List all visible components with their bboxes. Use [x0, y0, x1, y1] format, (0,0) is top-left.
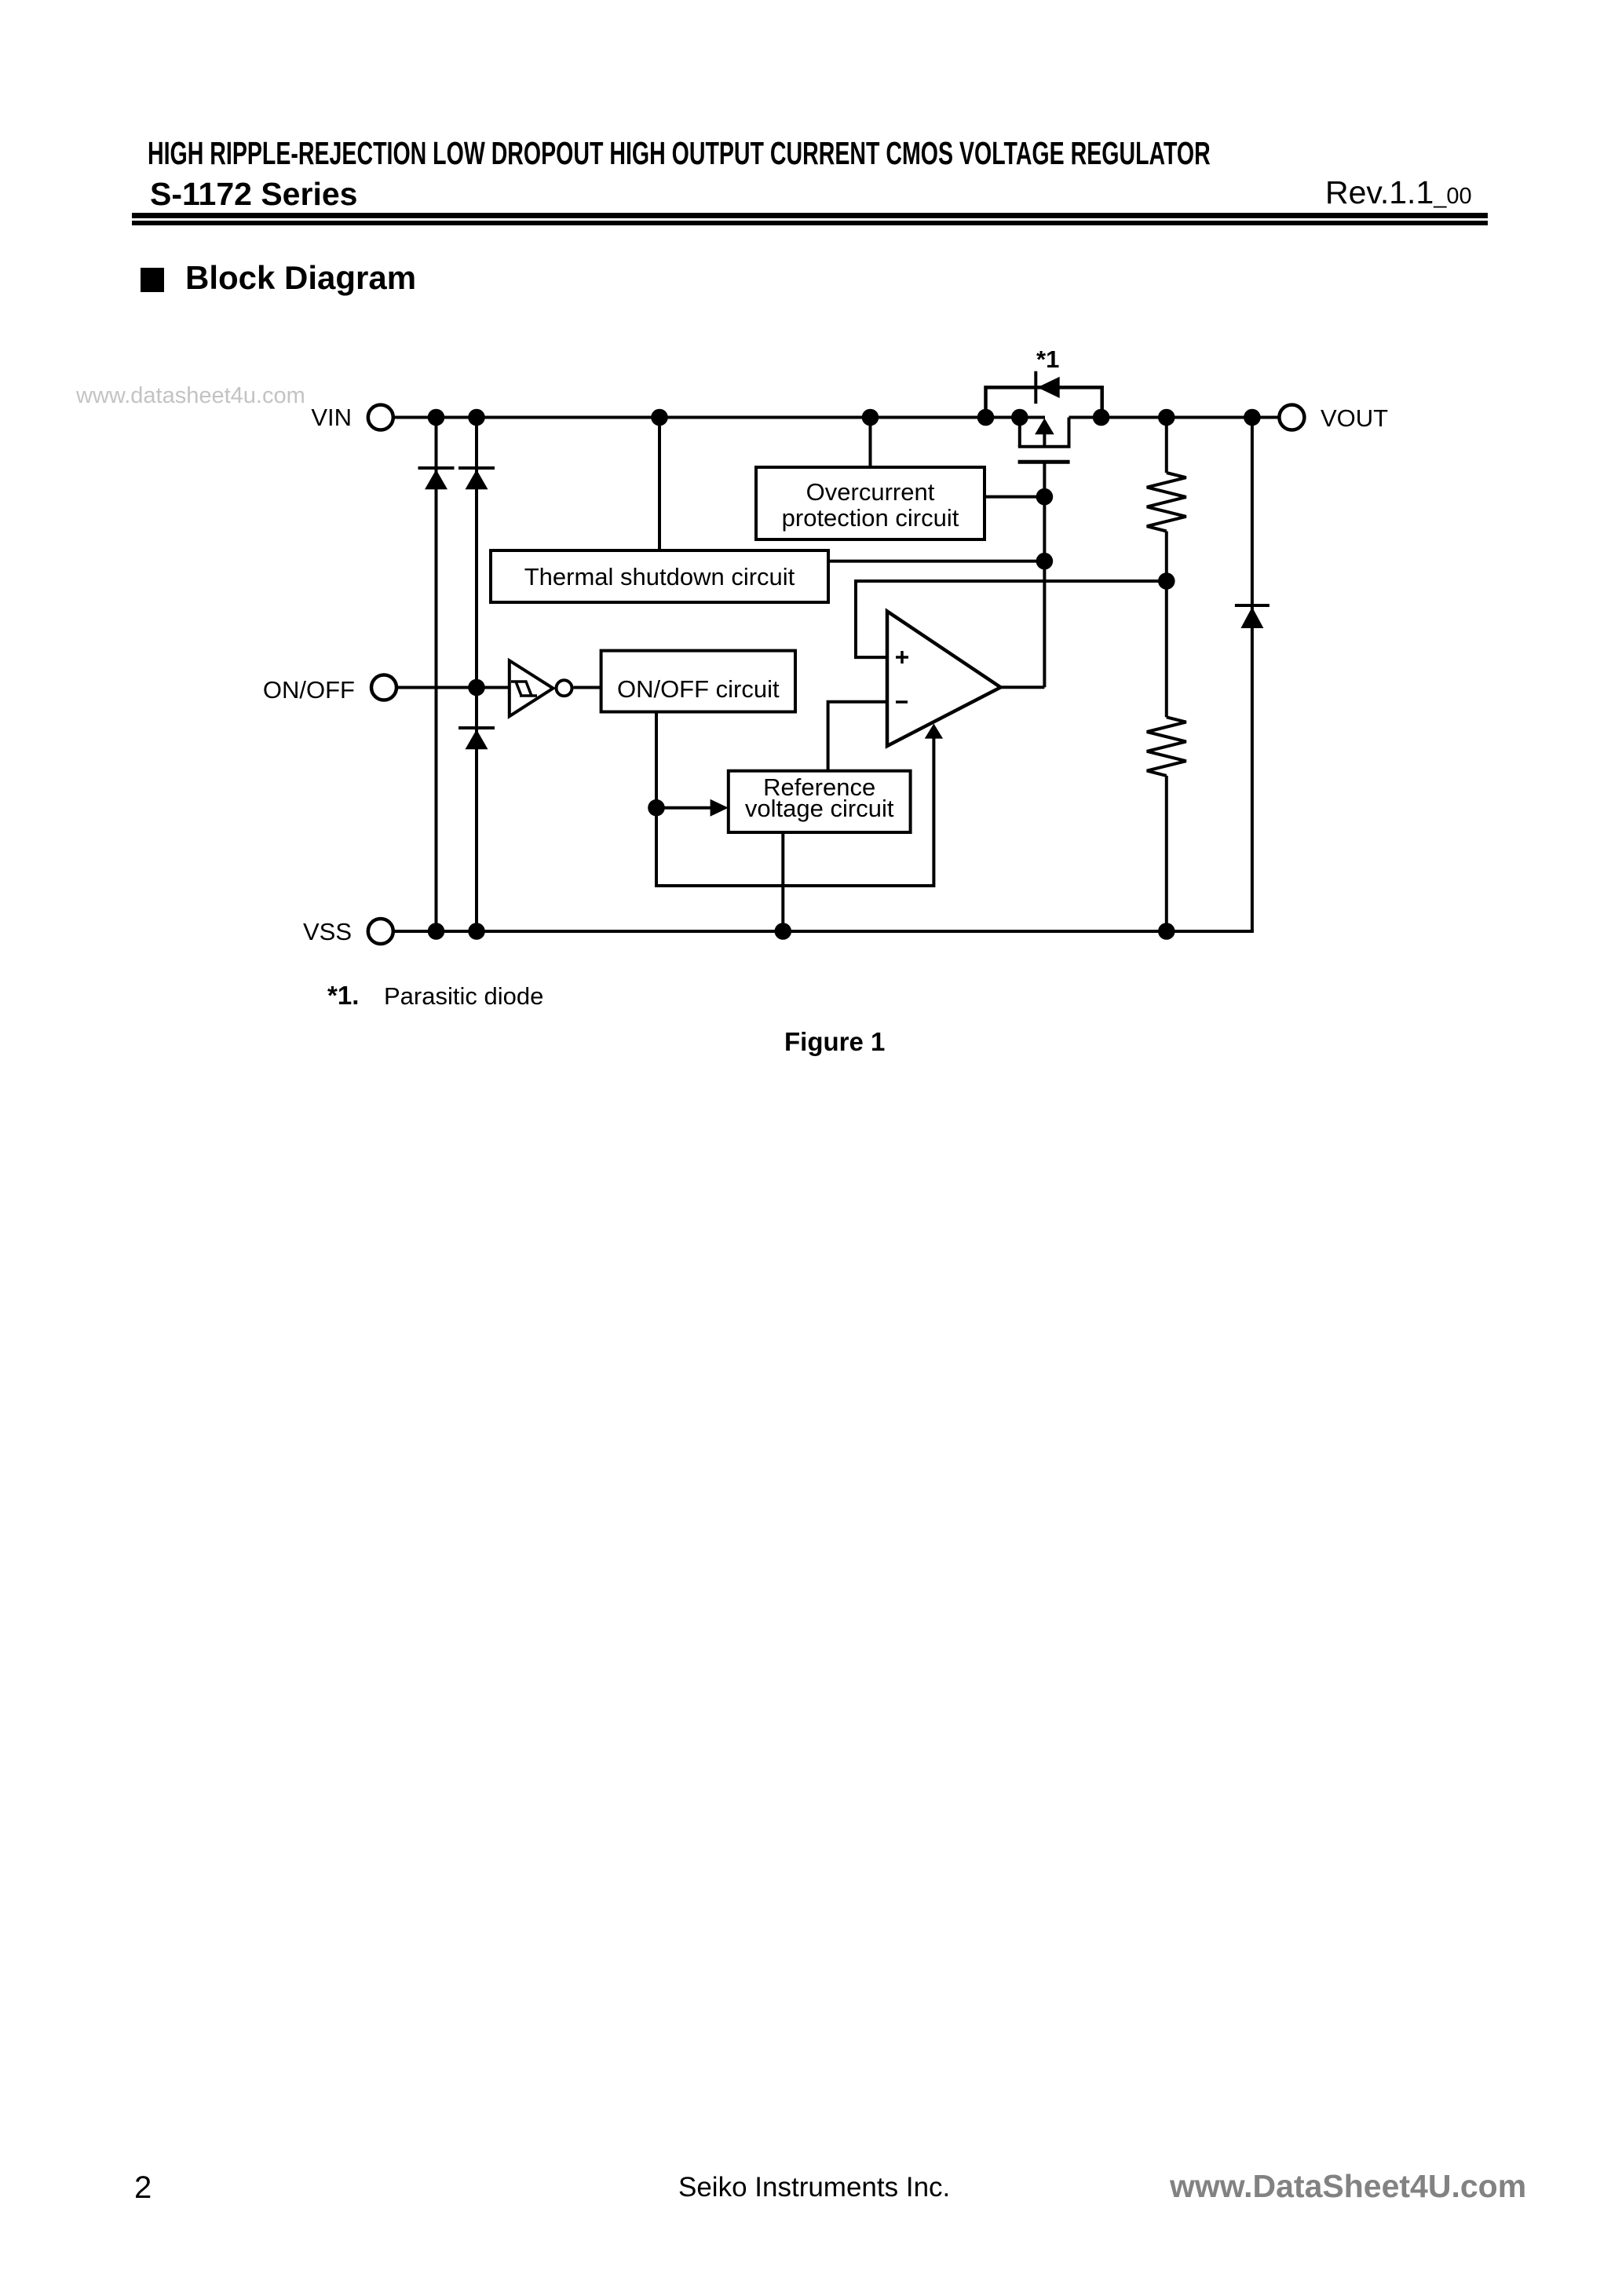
terminal VSS	[303, 918, 393, 945]
wire VIN rail right	[1069, 416, 1280, 419]
header title line 1	[148, 137, 1211, 170]
node gate dot 1	[1036, 488, 1054, 506]
box reference voltage circuit	[729, 771, 911, 832]
node junction dots on VIN rail	[428, 409, 1261, 426]
diode D1	[418, 468, 455, 489]
wire overcurrent to gate	[985, 495, 1044, 499]
footnote *1	[327, 982, 359, 1008]
section heading	[141, 268, 164, 292]
wire gate line	[1043, 462, 1046, 687]
footer right	[1170, 2170, 1526, 2203]
resistor R2	[1147, 717, 1186, 776]
svg-text:voltage circuit: voltage circuit	[745, 795, 894, 822]
figure caption	[784, 1029, 885, 1055]
svg-text:VOUT: VOUT	[1321, 404, 1388, 432]
resistor R1	[1147, 473, 1186, 532]
diode D3	[458, 728, 495, 749]
wire reference box to VSS	[781, 832, 784, 931]
watermark	[76, 385, 305, 408]
wire output diode branch	[1251, 418, 1254, 932]
box overcurrent protection circuit	[756, 467, 985, 539]
wire feedback to op-amp plus input	[856, 581, 1167, 657]
arrow bias into op-amp	[925, 724, 943, 739]
svg-text:Thermal shutdown circuit: Thermal shutdown circuit	[524, 563, 795, 590]
wire vertical VIN-VSS through D2 D3	[475, 418, 478, 932]
node feedback tap dot	[1158, 572, 1175, 590]
svg-text:Overcurrent: Overcurrent	[806, 478, 935, 506]
double rule	[132, 213, 1488, 218]
op-amp U1 error amplifier	[887, 612, 1001, 747]
wire op-amp minus input to reference	[828, 702, 887, 772]
wire schmitt to ON/OFF box	[574, 686, 602, 689]
wire vertical VIN-VSS through D1	[435, 418, 438, 932]
revision	[1325, 177, 1472, 209]
wire arrow into reference box	[656, 799, 729, 817]
svg-text:ON/OFF: ON/OFF	[263, 676, 355, 704]
svg-text:VIN: VIN	[311, 404, 352, 431]
node dot ref feed	[648, 799, 665, 817]
wire VSS rail	[394, 930, 1254, 933]
node gate dot 2	[1036, 553, 1054, 570]
diode parasitic *1	[1036, 345, 1059, 404]
footer center	[678, 2174, 950, 2201]
svg-text:protection circuit: protection circuit	[782, 504, 959, 532]
wire parasitic diode bypass	[986, 387, 1102, 417]
header title line 2	[150, 178, 357, 210]
diode D4	[1235, 605, 1269, 628]
terminal ON/OFF	[263, 675, 396, 704]
wire ON/OFF box to bias rail	[656, 712, 933, 887]
wire op-amp output	[1001, 686, 1045, 689]
wire thermal shutdown feed	[658, 418, 661, 551]
terminal VIN	[311, 404, 393, 431]
wire ON/OFF input	[396, 686, 510, 689]
wire divider lower lead	[1165, 776, 1168, 931]
wire divider upper lead	[1165, 418, 1168, 473]
terminal VOUT	[1279, 404, 1388, 432]
svg-text:*1: *1	[1036, 345, 1059, 373]
box ON/OFF circuit	[601, 651, 795, 712]
svg-text:ON/OFF circuit: ON/OFF circuit	[617, 675, 780, 703]
page number	[134, 2172, 152, 2203]
svg-text:VSS: VSS	[303, 918, 352, 945]
wire VIN rail left	[394, 416, 1045, 419]
wire divider middle	[1165, 532, 1168, 718]
wire thermal to gate	[828, 560, 1044, 563]
box thermal shutdown circuit	[491, 550, 828, 602]
inverter schmitt trigger	[510, 660, 572, 716]
diode D2	[458, 468, 495, 489]
wire overcurrent feed	[869, 418, 872, 470]
node junction dots on VSS rail	[428, 923, 1175, 940]
node junction dot ON/OFF line	[468, 679, 485, 696]
transistor M1 pass PMOS	[1018, 418, 1071, 462]
